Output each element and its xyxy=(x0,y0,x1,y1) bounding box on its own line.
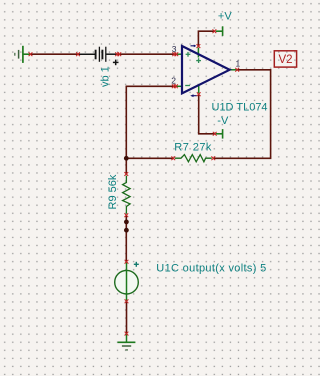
svg-text:vb 1: vb 1 xyxy=(100,66,112,87)
svg-text:U1D TL074: U1D TL074 xyxy=(212,102,268,114)
svg-text:R9 56k: R9 56k xyxy=(107,174,119,209)
svg-text:3: 3 xyxy=(172,44,177,54)
svg-text:V2: V2 xyxy=(278,54,292,66)
svg-text:R7 27k: R7 27k xyxy=(174,142,212,154)
svg-text:1: 1 xyxy=(236,58,241,68)
svg-text:-V: -V xyxy=(217,115,229,127)
svg-text:2: 2 xyxy=(171,76,176,86)
svg-text:+V: +V xyxy=(218,11,232,23)
svg-text:U1C output(x volts) 5: U1C output(x volts) 5 xyxy=(156,263,266,275)
